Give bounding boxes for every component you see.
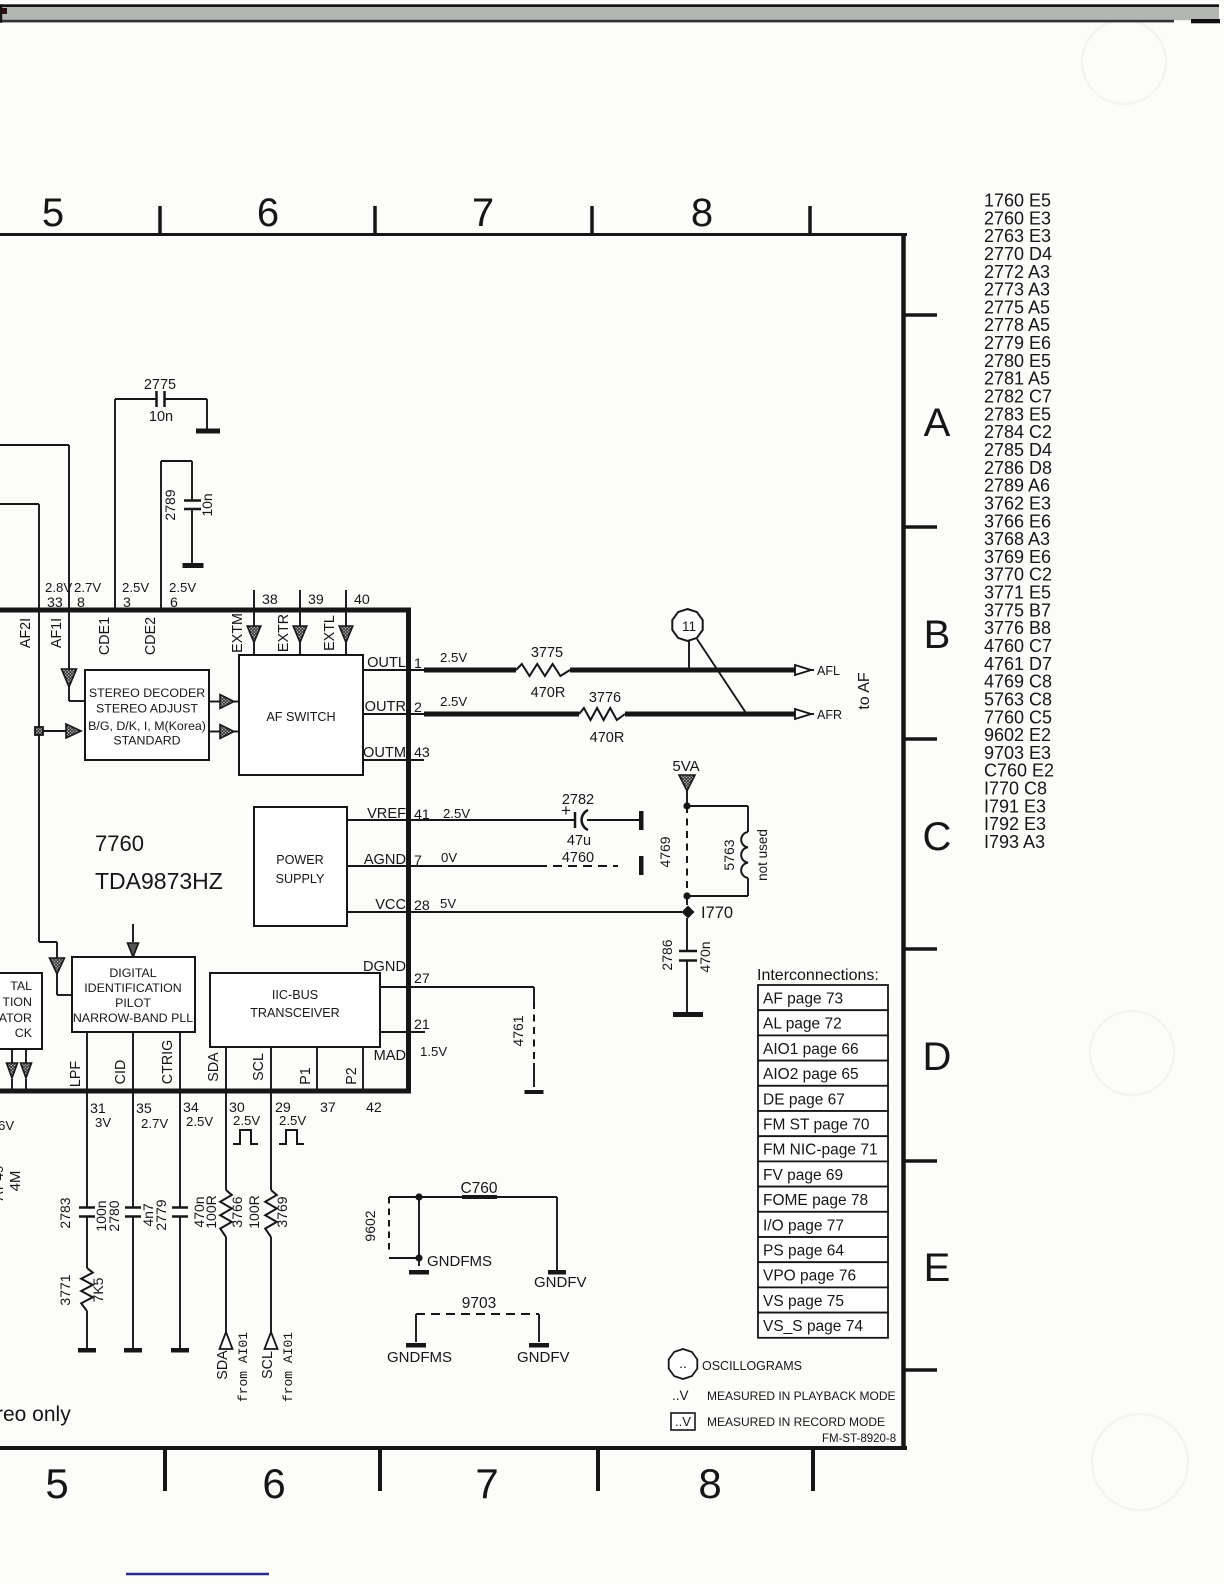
svg-text:AGND: AGND [364,852,406,868]
svg-text:0V: 0V [441,850,457,865]
svg-text:CID: CID [113,1060,129,1085]
svg-text:AF1I: AF1I [49,618,65,648]
svg-text:9602: 9602 [362,1210,378,1241]
svg-text:2775: 2775 [144,377,176,393]
svg-text:8: 8 [691,191,713,235]
svg-text:POWER: POWER [276,853,324,867]
svg-text:..V: ..V [672,1388,689,1403]
svg-text:38: 38 [262,592,278,608]
svg-text:SCL: SCL [251,1053,267,1081]
svg-text:2.5V: 2.5V [169,580,196,595]
svg-text:VS_S page 74: VS_S page 74 [763,1318,863,1335]
svg-text:OUTL: OUTL [367,655,406,671]
svg-text:NARROW-BAND PLL: NARROW-BAND PLL [73,1011,193,1025]
svg-text:C760: C760 [460,1180,497,1197]
svg-text:VREF: VREF [367,806,406,822]
svg-text:PILOT: PILOT [115,996,151,1010]
svg-text:2779: 2779 [153,1199,169,1230]
svg-text:MEASURED IN PLAYBACK MODE: MEASURED IN PLAYBACK MODE [707,1389,895,1403]
svg-text:DGND: DGND [363,959,406,975]
svg-text:5: 5 [45,1460,68,1507]
svg-text:from AI01: from AI01 [281,1332,296,1402]
svg-text:IDENTIFICATION: IDENTIFICATION [84,981,182,995]
svg-text:GNDFMS: GNDFMS [387,1349,452,1366]
svg-text:470R: 470R [531,685,566,701]
svg-text:OUTM: OUTM [363,745,406,761]
svg-text:2.5V: 2.5V [440,650,467,665]
svg-text:..: .. [679,1355,687,1371]
svg-text:STANDARD: STANDARD [113,734,180,748]
svg-text:PS page 64: PS page 64 [763,1243,844,1260]
svg-text:LPF: LPF [68,1061,84,1087]
svg-text:DIGITAL: DIGITAL [109,966,156,980]
svg-text:C: C [923,815,952,859]
svg-text:39: 39 [308,592,324,608]
svg-text:21: 21 [414,1017,430,1033]
svg-text:7K5: 7K5 [90,1277,106,1302]
svg-text:2.5V: 2.5V [122,580,149,595]
svg-text:SUPPLY: SUPPLY [276,872,325,886]
svg-text:SCL: SCL [260,1351,276,1379]
svg-text:4M: 4M [7,1171,24,1192]
svg-text:2.5V: 2.5V [233,1113,260,1128]
svg-text:AIO2 page 65: AIO2 page 65 [763,1066,859,1083]
svg-text:AIO1 page 66: AIO1 page 66 [763,1041,859,1058]
svg-text:6: 6 [257,191,279,235]
svg-text:IIC-BUS: IIC-BUS [272,988,318,1002]
svg-text:TION: TION [2,995,32,1009]
svg-text:2786: 2786 [659,939,675,970]
svg-text:4769: 4769 [657,836,673,867]
svg-text:7: 7 [475,1460,498,1507]
svg-text:27: 27 [414,971,430,987]
svg-text:42: 42 [366,1100,382,1116]
svg-text:2783: 2783 [57,1197,73,1228]
svg-text:5: 5 [42,191,64,235]
svg-text:1: 1 [414,656,422,672]
svg-text:EXTM: EXTM [230,613,246,653]
svg-text:P1: P1 [298,1067,314,1085]
svg-text:470n: 470n [697,941,713,972]
svg-text:10n: 10n [199,493,215,516]
svg-text:2: 2 [414,700,422,716]
svg-text:CTRIG: CTRIG [160,1040,176,1084]
svg-text:2.7V: 2.7V [141,1116,168,1131]
svg-text:470R: 470R [590,730,625,746]
svg-text:P2: P2 [344,1067,360,1085]
svg-text:3766: 3766 [229,1196,245,1227]
svg-text:from AI01: from AI01 [236,1332,251,1402]
svg-text:40: 40 [354,592,370,608]
svg-text:..V: ..V [675,1414,691,1429]
svg-text:10n: 10n [149,409,173,425]
svg-text:37: 37 [320,1100,336,1116]
svg-text:28: 28 [414,898,430,914]
svg-text:3775: 3775 [531,645,563,661]
svg-text:B/G, D/K, I, M(Korea): B/G, D/K, I, M(Korea) [88,719,206,733]
svg-text:5V: 5V [440,896,456,911]
svg-text:FM-ST-8920-8: FM-ST-8920-8 [822,1433,896,1445]
svg-text:FOME page 78: FOME page 78 [763,1192,868,1209]
svg-text:B: B [924,613,951,657]
svg-text:GNDFV: GNDFV [534,1274,587,1291]
svg-text:EXTR: EXTR [276,614,292,652]
svg-text:I/O page 77: I/O page 77 [763,1217,844,1234]
svg-text:2780: 2780 [106,1200,122,1231]
svg-text:AFL: AFL [817,664,840,678]
svg-text:100R: 100R [203,1195,219,1228]
svg-text:AT-49: AT-49 [0,1165,6,1200]
svg-text:DE page 67: DE page 67 [763,1091,845,1108]
svg-text:GNDFMS: GNDFMS [427,1253,492,1270]
svg-text:6V: 6V [0,1118,14,1133]
svg-text:Interconnections:: Interconnections: [757,967,879,984]
svg-text:SDA: SDA [215,1350,231,1380]
svg-text:STEREO DECODER: STEREO DECODER [89,686,205,700]
svg-text:MAD: MAD [374,1048,406,1064]
svg-text:2.5V: 2.5V [186,1114,213,1129]
svg-text:2789: 2789 [162,489,178,520]
svg-text:CDE1: CDE1 [97,617,113,655]
svg-text:2.5V: 2.5V [279,1113,306,1128]
svg-text:A: A [924,401,951,445]
svg-text:FV page 69: FV page 69 [763,1167,843,1184]
svg-text:7: 7 [414,853,422,869]
svg-text:VPO page 76: VPO page 76 [763,1268,856,1285]
svg-text:2.5V: 2.5V [440,694,467,709]
svg-text:ATOR: ATOR [0,1011,32,1025]
svg-text:OUTR: OUTR [365,699,406,715]
svg-text:I793 A3: I793 A3 [984,832,1045,852]
svg-text:3771: 3771 [57,1274,73,1305]
svg-text:43: 43 [414,745,430,761]
svg-text:AFR: AFR [817,708,842,722]
svg-text:2.5V: 2.5V [443,806,470,821]
svg-text:STEREO ADJUST: STEREO ADJUST [96,702,198,716]
svg-text:5VA: 5VA [672,758,699,775]
svg-text:EXTL: EXTL [322,615,338,651]
svg-text:VS page 75: VS page 75 [763,1293,844,1310]
svg-text:1.5V: 1.5V [420,1044,447,1059]
svg-text:CK: CK [15,1026,33,1040]
svg-text:TAL: TAL [10,979,32,993]
svg-text:I770: I770 [701,904,733,922]
svg-text:AF2I: AF2I [18,618,34,648]
svg-text:2.8V: 2.8V [45,580,72,595]
svg-text:CDE2: CDE2 [143,617,159,655]
svg-text:TRANSCEIVER: TRANSCEIVER [250,1006,340,1020]
svg-text:2.7V: 2.7V [74,580,101,595]
svg-text:AF page 73: AF page 73 [763,991,843,1008]
svg-text:4760: 4760 [562,850,594,866]
svg-text:47u: 47u [567,833,591,849]
svg-text:GNDFV: GNDFV [517,1349,570,1366]
svg-text:9703: 9703 [462,1295,496,1312]
svg-text:D: D [923,1035,952,1079]
svg-text:FM ST page 70: FM ST page 70 [763,1117,870,1134]
svg-text:8: 8 [698,1460,721,1507]
svg-text:AL page 72: AL page 72 [763,1016,842,1033]
svg-text:41: 41 [414,807,430,823]
svg-text:7: 7 [472,191,494,235]
svg-text:VCC: VCC [375,897,406,913]
svg-text:OSCILLOGRAMS: OSCILLOGRAMS [702,1359,802,1373]
svg-text:MEASURED IN RECORD MODE: MEASURED IN RECORD MODE [707,1415,885,1429]
svg-text:7760: 7760 [95,831,144,856]
svg-text:TDA9873HZ: TDA9873HZ [95,868,223,894]
svg-text:11: 11 [682,619,696,634]
svg-text:AF SWITCH: AF SWITCH [266,710,335,724]
svg-text:FM NIC-page 71: FM NIC-page 71 [763,1142,878,1159]
svg-text:to AF: to AF [856,672,873,710]
svg-text:not used: not used [755,829,770,881]
svg-text:6: 6 [262,1460,285,1507]
svg-text:100R: 100R [246,1195,262,1228]
svg-text:3769: 3769 [274,1196,290,1227]
svg-text:2782: 2782 [562,792,594,808]
svg-text:4761: 4761 [510,1015,526,1046]
svg-text:3V: 3V [95,1115,111,1130]
svg-text:3776: 3776 [589,690,621,706]
svg-text:reo only: reo only [0,1403,71,1426]
svg-text:E: E [924,1246,951,1290]
svg-text:5763: 5763 [721,839,737,870]
svg-text:35: 35 [136,1101,152,1117]
svg-text:SDA: SDA [206,1052,222,1082]
